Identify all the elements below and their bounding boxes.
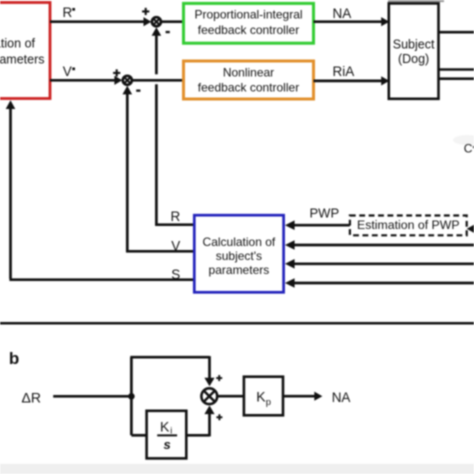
svg-text:RiA: RiA: [333, 64, 355, 79]
svg-text:parameters: parameters: [0, 53, 45, 67]
svg-text:parameters: parameters: [209, 263, 270, 277]
svg-text:PWP: PWP: [310, 205, 340, 220]
svg-text:p: p: [266, 397, 271, 408]
svg-text:Nonlinear: Nonlinear: [223, 65, 274, 79]
svg-text:s: s: [164, 437, 171, 452]
svg-text:subject's: subject's: [216, 249, 262, 263]
svg-text:V: V: [63, 64, 72, 79]
svg-text:(Dog): (Dog): [398, 52, 429, 66]
svg-text:ΔR: ΔR: [22, 389, 41, 405]
svg-text:Estimation of PWP: Estimation of PWP: [357, 218, 460, 232]
svg-text:V: V: [171, 239, 180, 254]
svg-text:feedback controller: feedback controller: [198, 23, 299, 37]
svg-text:NA: NA: [332, 390, 351, 405]
svg-text:Proportional-integral: Proportional-integral: [194, 8, 302, 22]
svg-text:NA: NA: [333, 6, 352, 21]
svg-text:C: C: [464, 142, 473, 156]
svg-text:i: i: [170, 426, 172, 436]
svg-text:R: R: [63, 5, 73, 20]
svg-text:R: R: [171, 209, 181, 224]
svg-text:feedback controller: feedback controller: [198, 80, 299, 94]
svg-text:S: S: [171, 267, 180, 282]
svg-text:Subject: Subject: [393, 37, 435, 51]
svg-text:Calculation of: Calculation of: [203, 235, 276, 249]
svg-text:K: K: [160, 419, 170, 435]
svg-text:b: b: [9, 349, 19, 368]
svg-text:Estimation of: Estimation of: [0, 37, 36, 51]
